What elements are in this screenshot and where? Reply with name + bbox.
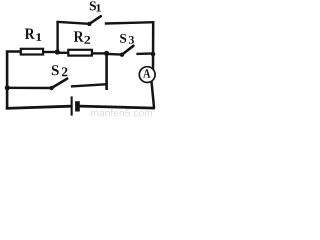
resistor R2 label <box>74 31 84 41</box>
resistor R1 <box>21 49 43 55</box>
switch S1 pivot <box>87 22 91 26</box>
resistor R1 label <box>25 29 35 39</box>
battery long plate <box>71 96 73 115</box>
wire node A to R2 <box>57 52 70 54</box>
node S3-right junction dot <box>151 52 156 57</box>
switch S1 lever <box>89 16 101 24</box>
wire node B down to S2 branch corner <box>105 53 108 91</box>
switch S2 lever <box>52 79 68 88</box>
battery short plate <box>75 101 80 111</box>
wire bottom rail left of battery <box>6 106 71 108</box>
wire right vertical upper <box>152 21 155 70</box>
wire node A up to top rail <box>56 21 58 52</box>
wire R1 to node A <box>43 51 59 53</box>
wire top rail right segment <box>105 22 154 23</box>
node S2-left junction dot <box>5 85 10 90</box>
switch S3 pivot <box>120 53 124 57</box>
resistor R2 <box>68 50 92 56</box>
wire main rail left to R1 <box>6 50 22 52</box>
wire S2 branch right segment <box>71 84 108 86</box>
ammeter A <box>139 67 155 83</box>
wire top rail left segment <box>56 22 89 24</box>
watermark manfen5.com <box>91 109 152 117</box>
wire S3 branch right <box>136 52 154 55</box>
wire bottom rail right of battery <box>80 106 155 108</box>
switch S1 label <box>90 1 96 10</box>
switch S2 pivot <box>49 86 53 90</box>
wire S3 branch left <box>107 53 122 56</box>
wire R2 to node B <box>92 52 108 54</box>
node A junction dot <box>55 49 60 54</box>
switch S3 label <box>120 34 126 43</box>
wire right vertical lower <box>151 79 154 109</box>
switch S3 lever <box>122 46 133 55</box>
wire left vertical <box>6 52 9 110</box>
wire S2 branch left segment <box>6 87 52 90</box>
node B junction dot <box>104 51 109 56</box>
switch S2 label <box>52 65 59 75</box>
